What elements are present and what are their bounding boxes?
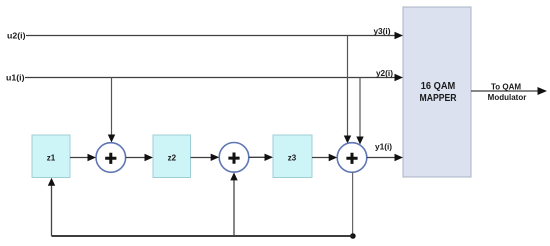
svg-text:u2(i): u2(i)	[7, 32, 26, 41]
svg-text:To QAM: To QAM	[491, 83, 521, 92]
svg-text:u1(i): u1(i)	[6, 74, 25, 83]
svg-text:z3: z3	[288, 154, 297, 163]
svg-text:Modulator: Modulator	[488, 93, 527, 102]
svg-text:z1: z1	[47, 154, 56, 163]
svg-text:MAPPER: MAPPER	[420, 93, 458, 104]
svg-text:y1(i): y1(i)	[375, 142, 392, 152]
svg-text:z2: z2	[168, 154, 177, 163]
svg-text:16 QAM: 16 QAM	[421, 81, 456, 92]
svg-text:y2(i): y2(i)	[376, 68, 393, 78]
svg-text:y3(i): y3(i)	[373, 26, 390, 36]
